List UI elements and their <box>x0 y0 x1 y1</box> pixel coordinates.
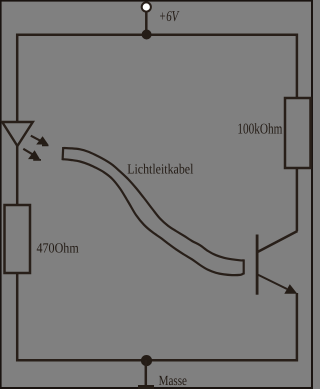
resistor R2 100kOhm <box>285 98 311 168</box>
transistor Q1 emitter lead with arrow <box>258 275 298 294</box>
svg-text:Lichtleitkabel: Lichtleitkabel <box>127 162 193 177</box>
ground terminal Masse (bar) <box>138 385 154 389</box>
fiber right end cap <box>243 259 245 274</box>
wire: bottom horizontal rail <box>16 359 298 362</box>
resistor R1 470Ohm <box>5 205 31 273</box>
wire: left rail upper segment (top rail to LED) <box>16 34 19 123</box>
wire: stub from bottom junction to ground <box>145 360 148 386</box>
wire: left rail lower segment (resistor R1 to bottom rail) <box>16 273 19 362</box>
wire: left rail middle segment (LED to resistor R1) <box>16 145 19 205</box>
junction dot on top rail <box>142 30 152 40</box>
svg-text:100kOhm: 100kOhm <box>237 122 282 138</box>
svg-text:Masse: Masse <box>159 374 187 389</box>
wire: top horizontal rail <box>16 34 298 37</box>
svg-text:+6V: +6V <box>159 9 180 25</box>
wire: right rail middle segment (resistor R2 to collector) <box>296 168 299 231</box>
LED light arrow 1 <box>31 136 49 146</box>
wire: right rail lower segment (emitter to bottom rail) <box>296 293 299 362</box>
wire: stub from +6V terminal to top rail <box>145 12 148 34</box>
fiber left end cap <box>61 147 64 160</box>
svg-text:470Ohm: 470Ohm <box>37 242 79 257</box>
terminal +6V (open circle) <box>142 2 151 11</box>
LED light arrow 2 <box>23 149 41 160</box>
LED D1 (triangle) <box>2 122 33 146</box>
optical fiber Lichtleitkabel (tube) <box>63 147 244 275</box>
wire: right rail upper segment (top rail to resistor R2) <box>296 34 299 99</box>
transistor Q1 collector lead <box>258 231 298 252</box>
transistor Q1 base bar <box>256 235 259 295</box>
junction dot on bottom rail <box>141 355 152 366</box>
